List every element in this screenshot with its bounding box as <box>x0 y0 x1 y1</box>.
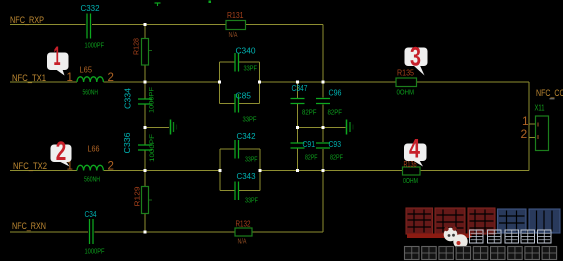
svg-text:C34: C34 <box>85 210 97 219</box>
wire left column R129 bottom lead <box>144 214 146 232</box>
wire left column R128 leads <box>144 25 146 39</box>
svg-text:1: 1 <box>522 114 529 128</box>
svg-text:82PF: 82PF <box>328 110 343 117</box>
svg-text:82PF: 82PF <box>302 110 317 117</box>
callout 3 <box>405 42 428 76</box>
svg-text:1: 1 <box>67 72 73 84</box>
wire column B lower segment to RXN corner <box>322 149 324 232</box>
svg-text:N/A: N/A <box>238 239 247 246</box>
wire NFC_RXP rail <box>10 24 86 26</box>
svg-text:1000PF: 1000PF <box>149 134 156 162</box>
svg-text:2: 2 <box>56 136 67 166</box>
svg-text:R128: R128 <box>132 38 141 55</box>
wire left column C334-C336 segment <box>144 104 146 145</box>
resistor R129 <box>142 187 153 214</box>
svg-text:560NH: 560NH <box>83 90 99 97</box>
svg-text:R132: R132 <box>236 220 251 229</box>
svg-text:C342: C342 <box>237 132 257 141</box>
svg-text:NFC_CON: NFC_CON <box>536 88 563 99</box>
svg-text:NFC_RXN: NFC_RXN <box>12 221 46 232</box>
node mid rail B <box>322 126 325 129</box>
svg-text:33PF: 33PF <box>243 117 257 124</box>
node box2 left <box>219 169 222 172</box>
watermark row1 red characters <box>406 208 495 234</box>
svg-text:C85: C85 <box>236 92 252 101</box>
svg-text:2: 2 <box>521 127 528 141</box>
node C336 bottom on TX2 <box>144 169 147 172</box>
wire column A upper <box>297 82 299 99</box>
callout 4 <box>404 134 427 167</box>
svg-text:C347: C347 <box>292 84 308 93</box>
svg-text:0OHM: 0OHM <box>403 178 418 185</box>
inductor L66 <box>77 165 103 170</box>
svg-text:C332: C332 <box>81 4 101 13</box>
svg-text:NFC_RXP: NFC_RXP <box>10 15 44 26</box>
watermark text sheng-bang-er-ke-ji <box>470 230 552 243</box>
capacitor C332 <box>87 14 91 39</box>
capacitor C91 <box>291 143 305 148</box>
svg-text:C91: C91 <box>303 140 316 149</box>
svg-text:C96: C96 <box>329 89 342 98</box>
wire column A middle <box>297 104 299 144</box>
wire mid node rail <box>298 127 346 129</box>
svg-text:1: 1 <box>67 161 73 173</box>
node R128 bottom on TX1 <box>144 81 147 84</box>
ground left <box>171 120 177 135</box>
capacitor C343 <box>235 182 239 201</box>
capacitor C96 <box>316 99 330 104</box>
capacitor C347 <box>291 99 305 104</box>
svg-text:R131: R131 <box>227 11 244 20</box>
wire NFC_RXN rail <box>10 231 88 233</box>
svg-text:33PF: 33PF <box>244 66 258 73</box>
svg-text:82PF: 82PF <box>305 155 318 162</box>
underline under NFC_CON <box>550 98 555 100</box>
svg-text:X11: X11 <box>535 104 545 113</box>
wire right corner column to X11 <box>528 82 530 171</box>
svg-text:0OHM: 0OHM <box>397 90 415 97</box>
svg-text:3: 3 <box>410 42 421 72</box>
capacitor C85 <box>235 94 239 113</box>
svg-text:C340: C340 <box>236 47 257 56</box>
svg-text:4: 4 <box>409 134 420 164</box>
ground partial top-left <box>155 3 161 6</box>
wire RXP corner drop to column B <box>322 25 324 98</box>
callout 2 <box>51 136 72 167</box>
resistor R135 <box>396 78 417 87</box>
svg-text:33PF: 33PF <box>245 157 258 164</box>
svg-text:NFC_TX2: NFC_TX2 <box>13 161 47 172</box>
resistor R136 <box>403 167 421 175</box>
svg-text:N/A: N/A <box>229 32 238 39</box>
svg-text:C343: C343 <box>237 172 257 181</box>
wire X11 pin 1 lead <box>529 123 536 125</box>
svg-text:L66: L66 <box>88 145 100 154</box>
capacitor C334 <box>138 99 152 104</box>
svg-text:C93: C93 <box>329 140 342 149</box>
svg-text:560NH: 560NH <box>84 177 100 184</box>
svg-text:C334: C334 <box>124 87 133 109</box>
svg-text:1000PF: 1000PF <box>85 43 105 50</box>
wire left ground tee <box>145 127 169 129</box>
node C347 top <box>296 81 299 84</box>
wire loop box 1 <box>220 61 235 63</box>
node column B on TX1 <box>322 81 325 84</box>
capacitor C93 <box>316 143 330 148</box>
wire X11 pin 2 lead <box>529 137 536 139</box>
wire NFC_TX1 rail <box>10 81 77 83</box>
svg-text:NFC_TX1: NFC_TX1 <box>12 73 46 84</box>
svg-text:1000PF: 1000PF <box>149 87 156 113</box>
svg-text:C336: C336 <box>123 132 132 154</box>
node box1 right <box>258 81 261 84</box>
wire left column C336-R129 segment <box>144 150 146 187</box>
node R128 top on RXP <box>144 23 147 26</box>
callout 1 <box>47 41 69 76</box>
watermark red underline bar <box>407 234 472 239</box>
watermark logo circles <box>444 226 468 248</box>
svg-text:L65: L65 <box>80 66 93 75</box>
svg-text:1: 1 <box>54 41 61 71</box>
svg-text:2: 2 <box>108 161 114 173</box>
svg-text:1000PF: 1000PF <box>85 249 105 256</box>
node R129 bottom on RXN <box>144 231 147 234</box>
capacitor C34 <box>90 219 94 244</box>
wire loop box 2 <box>220 148 235 150</box>
node mid rail A <box>296 126 299 129</box>
node box2 right <box>259 169 262 172</box>
watermark row1 navy characters <box>498 209 561 233</box>
stray mark top <box>209 1 212 4</box>
resistor R131 <box>226 21 246 30</box>
wire NFC_TX2 rail <box>10 170 77 172</box>
svg-text:2: 2 <box>108 72 114 84</box>
connector X11 <box>536 116 549 151</box>
ground right <box>347 120 354 135</box>
node column B on TX2 <box>322 169 325 172</box>
inductor L65 <box>77 77 103 82</box>
capacitor C342 <box>235 140 239 159</box>
capacitor C340 <box>235 53 239 72</box>
node left ground tee <box>144 126 147 129</box>
watermark row3 grey characters <box>405 247 557 260</box>
svg-text:R129: R129 <box>133 187 142 207</box>
resistor R132 <box>235 228 252 236</box>
resistor R128 <box>142 39 153 66</box>
capacitor C336 <box>138 145 152 150</box>
svg-text:33PF: 33PF <box>245 198 258 205</box>
node C91 bottom <box>296 169 299 172</box>
wire column B mid segment <box>322 105 324 143</box>
wire column A lower <box>297 148 299 171</box>
node box1 left <box>218 81 221 84</box>
svg-text:82PF: 82PF <box>330 155 343 162</box>
